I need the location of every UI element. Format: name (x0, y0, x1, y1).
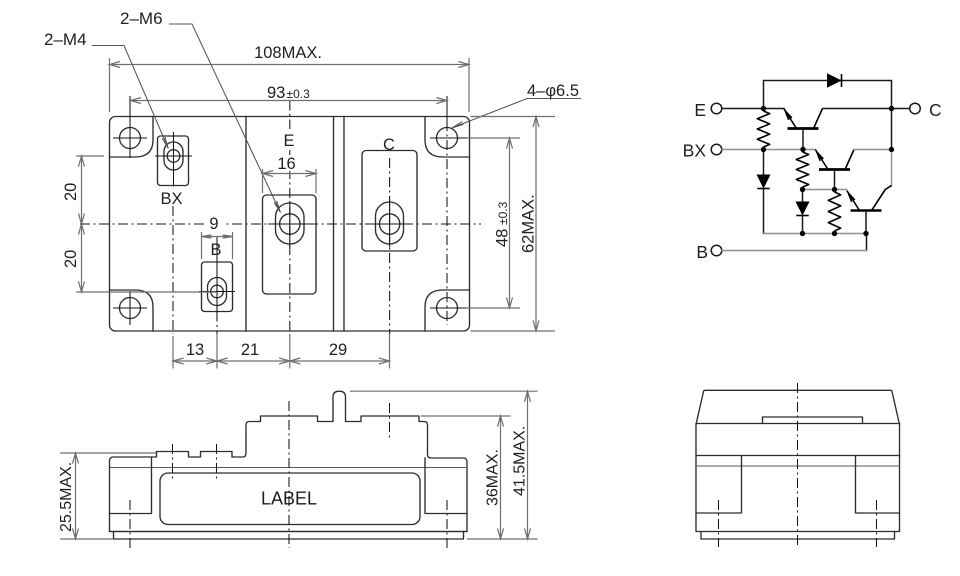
svg-text:BX: BX (160, 190, 182, 208)
top tab (763, 417, 863, 424)
label B (208, 240, 225, 257)
wire B terminal (866, 234, 868, 251)
resistor R2 (BX to Q2 base node) (796, 152, 808, 187)
svg-text:BX: BX (683, 141, 707, 161)
lid joint line (110, 467, 468, 469)
svg-text:25.5MAX.: 25.5MAX. (58, 462, 75, 532)
corner ear bottom-left (110, 290, 154, 331)
svg-text:2–M4: 2–M4 (44, 30, 87, 49)
terminal E (711, 103, 722, 114)
shoulder line (696, 423, 900, 425)
svg-text:E: E (694, 100, 706, 120)
terminal BX (2-M4) (155, 132, 192, 187)
svg-text:4–φ6.5: 4–φ6.5 (527, 82, 579, 100)
right notch (856, 456, 900, 514)
label plate (160, 473, 420, 525)
svg-text:41.5MAX.: 41.5MAX. (512, 426, 529, 496)
module top view body (110, 117, 470, 332)
E centerline (289, 101, 291, 130)
section divider (245, 117, 247, 332)
svg-text:B: B (696, 242, 708, 262)
B centerline (216, 237, 218, 269)
svg-text:62MAX.: 62MAX. (520, 194, 538, 253)
resistor R1 (E-BX) (757, 111, 769, 147)
right vertical wire C (891, 109, 893, 150)
svg-text:16: 16 (277, 155, 295, 173)
B rail wire (764, 233, 867, 235)
dimension 9 (206, 214, 223, 231)
centerlines side view (172, 444, 174, 482)
Q2 collector wire (854, 149, 892, 151)
mounting hole top-right (437, 128, 458, 149)
module horizontal centerline (80, 223, 481, 225)
mounting hole top-left (120, 128, 141, 149)
C centerline (389, 158, 391, 334)
svg-text:B: B (210, 241, 221, 259)
top rail wire with freewheel diode (764, 81, 892, 109)
svg-text:20: 20 (62, 183, 80, 201)
wire Q2-base node (803, 189, 847, 191)
transistor Q2 (815, 150, 854, 190)
resistor R3 (node to B rail) (828, 192, 840, 231)
svg-text:29: 29 (329, 341, 347, 359)
svg-text:36MAX.: 36MAX. (485, 449, 502, 506)
wire E to node (722, 108, 784, 110)
joint line (696, 465, 900, 467)
svg-text:9: 9 (209, 215, 218, 233)
freewheel diode D4 (828, 74, 841, 87)
narrow strip lines (333, 117, 335, 332)
corner ear top-left (110, 117, 154, 158)
terminal B (199, 262, 235, 321)
diode D2 (802, 190, 804, 203)
svg-text:48: 48 (494, 229, 512, 247)
BX centerline (172, 206, 174, 334)
side view outline (110, 391, 468, 531)
terminal E (2-M6) (263, 195, 317, 294)
terminal B (711, 245, 722, 256)
wire C node to terminal (892, 108, 910, 110)
upper case line (696, 455, 900, 457)
svg-text:21: 21 (241, 341, 259, 359)
dimension 16 (276, 155, 298, 171)
svg-text:13: 13 (186, 341, 204, 359)
terminal C (362, 151, 417, 252)
svg-text:2–M6: 2–M6 (120, 9, 163, 28)
centerlines end view (797, 383, 799, 547)
transistor Q3 (847, 186, 892, 234)
svg-text:E: E (283, 132, 294, 150)
svg-text:±0.3: ±0.3 (496, 201, 510, 225)
svg-text:C: C (383, 136, 395, 154)
svg-text:108MAX.: 108MAX. (254, 44, 322, 62)
diode D1 (BX to B rail) (763, 150, 765, 176)
base plate (110, 531, 468, 533)
end view outline (696, 390, 900, 531)
svg-text:C: C (929, 100, 942, 120)
terminal BX (711, 144, 722, 155)
transistor Q1 (784, 109, 823, 150)
base plate (701, 532, 895, 540)
svg-text:20: 20 (62, 250, 80, 268)
left notch (696, 456, 742, 514)
wire BX rail (722, 149, 815, 151)
svg-text:±0.3: ±0.3 (287, 87, 311, 101)
mounting hole bottom-right (437, 298, 458, 319)
junction dots (761, 106, 766, 111)
right ear recess (425, 458, 467, 514)
svg-text:93: 93 (267, 84, 285, 102)
Q1 collector wire (823, 108, 892, 110)
corner ear bottom-right (425, 290, 470, 331)
left ear recess (110, 458, 152, 514)
terminal C (910, 103, 921, 114)
mounting hole bottom-left (120, 298, 141, 319)
corner ear top-right (425, 117, 470, 158)
